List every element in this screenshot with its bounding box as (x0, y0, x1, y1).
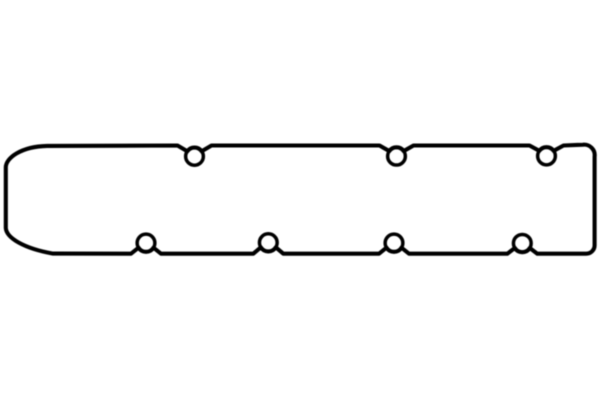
gasket outer outline (6, 145, 595, 254)
bolt hole bottom 4 (513, 234, 531, 252)
bolt hole top 1 (186, 148, 204, 166)
bolt hole top 3 (538, 147, 556, 165)
bolt hole bottom 2 (259, 234, 277, 252)
bolt hole bottom 1 (137, 234, 155, 252)
bolt hole bottom 3 (385, 234, 403, 252)
bolt hole top 2 (388, 147, 406, 165)
